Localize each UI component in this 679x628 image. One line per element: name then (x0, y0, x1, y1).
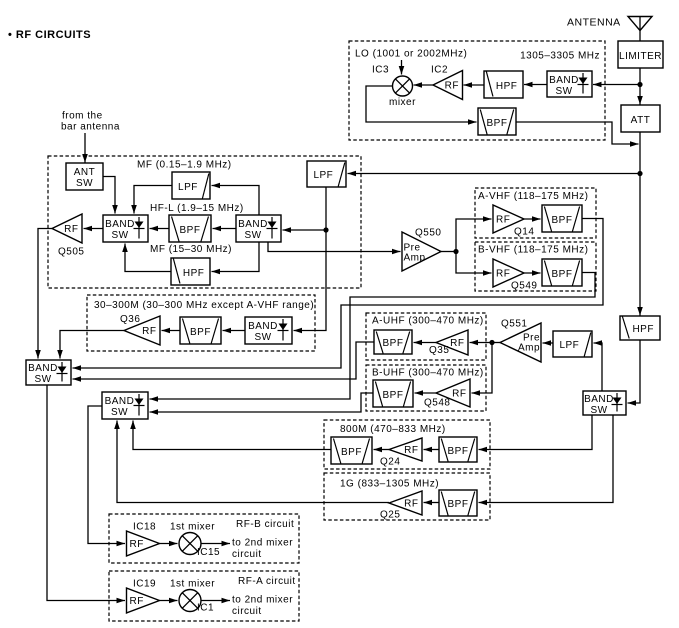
svg-text:HPF: HPF (632, 324, 654, 335)
svg-text:Q549: Q549 (511, 281, 537, 292)
band-pass filter BPF (A-UHF) (374, 330, 412, 354)
svg-text:IC18: IC18 (133, 522, 156, 533)
wire HPF out to band switch (125, 244, 171, 272)
wire to band switch (593, 84, 640, 86)
wire band switch to LPF (212, 186, 260, 216)
svg-text:ATT: ATT (631, 115, 651, 126)
svg-text:BPF: BPF (487, 118, 508, 129)
svg-text:Amp: Amp (518, 343, 540, 354)
svg-text:RF: RF (130, 539, 144, 550)
svg-text:to 2nd mixer: to 2nd mixer (232, 538, 293, 549)
wire Q551 to junction (492, 342, 500, 344)
dashed group 800M (324, 420, 490, 469)
svg-text:SW: SW (34, 374, 51, 385)
band-pass filter BPF (HF-L) (169, 215, 211, 242)
svg-text:Q548: Q548 (424, 398, 450, 409)
block LIMITER (618, 41, 663, 68)
wire B-VHF BPF out to BAND SW 2 (150, 273, 596, 400)
junction dot main line (637, 171, 642, 176)
svg-text:RF: RF (142, 326, 156, 337)
band-pass filter BPF (1G) (439, 490, 477, 516)
high-pass filter HPF (1305-3305) (484, 71, 523, 98)
svg-text:BPF: BPF (190, 327, 211, 338)
band-pass filter BPF (LO loop) (478, 108, 516, 135)
svg-text:LPF: LPF (559, 340, 579, 351)
svg-text:BAND: BAND (248, 321, 278, 332)
svg-text:HPF: HPF (496, 81, 518, 92)
svg-text:BAND: BAND (584, 394, 614, 405)
band-pass filter BPF (B-UHF) (373, 380, 413, 407)
svg-text:30–300M (30–300 MHz except A-V: 30–300M (30–300 MHz except A-VHF range) (94, 300, 314, 311)
wire IC2 to mixer (414, 84, 434, 86)
svg-text:MF (0.15–1.9 MHz): MF (0.15–1.9 MHz) (137, 160, 232, 171)
op-amp U IC2 RF amplifier (433, 71, 463, 100)
svg-text:to 2nd mixer: to 2nd mixer (232, 595, 293, 606)
low-pass filter LPF (UHF) (553, 331, 592, 357)
band-switch BAND SW (MF select in) (236, 215, 281, 242)
wire IC19 to mixer IC1 (160, 600, 178, 602)
svg-text:BAND: BAND (105, 396, 135, 407)
junction dot Q550 output (453, 249, 458, 254)
svg-text:Q14: Q14 (514, 227, 534, 238)
dashed group 1G (324, 473, 490, 520)
wire IC18 to mixer IC15 (160, 543, 178, 545)
wire band switch to BPF (213, 228, 237, 230)
wire LO to mixer with arrow (401, 60, 403, 75)
transistor IC18 RF amplifier (127, 531, 160, 556)
wire mixer to BPF (366, 86, 477, 122)
svg-text:LPF: LPF (313, 170, 333, 181)
svg-text:IC15: IC15 (197, 547, 220, 558)
wire 800M out to BAND SW B bottom (133, 421, 331, 450)
svg-text:IC3: IC3 (372, 65, 389, 76)
svg-text:RF-B circuit: RF-B circuit (236, 519, 294, 530)
wire Q548 to B-UHF BPF (415, 392, 437, 394)
svg-text:800M (470–833 MHz): 800M (470–833 MHz) (340, 424, 446, 435)
band-switch BAND SW (output A) (26, 360, 71, 385)
wire BAND SW to 800M BPF (479, 415, 593, 450)
band-pass filter BPF (B-VHF) (542, 259, 582, 286)
svg-text:BPF: BPF (341, 447, 362, 458)
band-switch BAND SW (UHF select) (583, 391, 626, 415)
wire Q35 to A-UHF BPF (414, 342, 437, 344)
low-pass filter LPF (top feed) (307, 161, 346, 187)
svg-text:RF: RF (496, 269, 510, 280)
svg-text:LIMITER: LIMITER (619, 51, 662, 62)
svg-text:Q35: Q35 (429, 345, 449, 356)
wire bar antenna to ANT SW (84, 133, 86, 163)
svg-text:IC19: IC19 (133, 579, 156, 590)
band-pass filter BPF (A-VHF) (542, 205, 582, 232)
wire mixer IC15 to 2nd mixer (201, 543, 230, 545)
dashed group A-VHF (475, 188, 596, 238)
svg-text:BPF: BPF (448, 446, 469, 457)
band-pass filter BPF (800M in) (439, 437, 477, 462)
wire HPF to IC2 (464, 84, 485, 86)
svg-text:• RF CIRCUITS: • RF CIRCUITS (8, 29, 91, 41)
svg-text:RF-A circuit: RF-A circuit (238, 576, 296, 587)
band-switch BAND SW (30-300M) (245, 317, 292, 344)
svg-text:circuit: circuit (232, 549, 262, 560)
wire LPF to Q551 (543, 342, 554, 344)
svg-text:mixer: mixer (389, 97, 416, 108)
transistor Q24 RF amplifier (389, 438, 422, 461)
dashed group RF-A circuit (109, 571, 299, 621)
transistor Q505 RF amplifier (52, 214, 82, 243)
wire HPF to BAND SW right (628, 340, 641, 403)
svg-text:BPF: BPF (552, 215, 573, 226)
wire A-UHF BPF out to BAND SW A (73, 342, 375, 379)
svg-text:RF: RF (452, 389, 466, 400)
wire MF band switch to Q550 (268, 242, 401, 252)
svg-text:SW: SW (244, 230, 261, 241)
svg-text:LO (1001 or 2002MHz): LO (1001 or 2002MHz) (355, 49, 467, 60)
svg-text:SW: SW (254, 332, 271, 343)
band-switch BAND SW (MF select out) (103, 215, 148, 242)
band-switch BAND SW (output B) (102, 392, 148, 419)
wire mixer IC1 to 2nd mixer (201, 600, 230, 602)
dashed group LO section (349, 41, 605, 140)
svg-text:RF: RF (450, 338, 464, 349)
svg-text:BPF: BPF (383, 390, 404, 401)
dashed group 30-300M (87, 295, 315, 351)
low-pass filter LPF (MF low) (172, 172, 210, 199)
svg-text:Amp: Amp (404, 253, 426, 264)
svg-text:B-VHF (118–175 MHz): B-VHF (118–175 MHz) (478, 245, 588, 256)
svg-text:RF: RF (496, 215, 510, 226)
wire band switch to HPF (524, 84, 547, 86)
wire band switch to Q505 (84, 228, 104, 230)
svg-text:Q25: Q25 (380, 510, 400, 521)
dashed group RF-B circuit (109, 514, 299, 563)
wire band switch to BPF (223, 330, 246, 332)
mixer IC15 (179, 533, 201, 555)
high-pass filter HPF (MF high) (171, 258, 210, 285)
svg-text:A-VHF (118–175 MHz): A-VHF (118–175 MHz) (478, 191, 588, 202)
dashed group MF/HF section (48, 156, 361, 288)
svg-text:ANTENNA: ANTENNA (567, 17, 621, 29)
wire band switch to HPF (212, 242, 260, 272)
wire Q25 out to BAND SW B bottom (117, 421, 389, 503)
wire junction to Q549 (456, 252, 492, 274)
wire BAND SW A to IC19 (47, 385, 125, 601)
svg-text:BPF: BPF (448, 499, 469, 510)
band-pass filter BPF (800M out) (331, 437, 372, 464)
svg-text:HF-L (1.9–15 MHz): HF-L (1.9–15 MHz) (150, 203, 244, 214)
band-switch BAND SW (1305-3305) (547, 71, 592, 97)
block ANT SW (66, 163, 103, 190)
wire BPF out to band switch (150, 228, 170, 230)
svg-text:circuit: circuit (232, 606, 262, 617)
wire BPF to Q36 (162, 330, 181, 332)
wire LPF out to band switch (134, 186, 172, 214)
wire A-VHF BPF out to BAND SW lower-left (73, 219, 604, 369)
wire Q549 to BPF (524, 272, 541, 274)
wire Q14 to BPF (524, 218, 541, 220)
wire Q550 to junction (441, 251, 456, 253)
wire Q36 to BAND SW lower-left (60, 331, 124, 359)
svg-text:Q24: Q24 (380, 457, 400, 468)
svg-text:RF: RF (445, 81, 459, 92)
wire junction to MF band switch (283, 229, 327, 231)
transistor Q25 RF amplifier (389, 491, 422, 515)
svg-text:MF (15–30 MHz): MF (15–30 MHz) (150, 244, 232, 255)
wire Q505 to BAND SW lower-left (38, 229, 52, 359)
svg-text:RF: RF (404, 499, 418, 510)
junction dot Q551 output (489, 340, 494, 345)
svg-text:1305–3305 MHz: 1305–3305 MHz (520, 51, 600, 62)
svg-text:IC1: IC1 (197, 603, 214, 614)
svg-text:Q551: Q551 (501, 319, 527, 330)
svg-text:SW: SW (590, 405, 607, 416)
dashed group B-UHF (366, 365, 486, 411)
transistor Q548 RF amplifier (436, 379, 470, 407)
wire junction to Q548 (472, 343, 493, 394)
wire ANT SW to band switch (103, 177, 115, 214)
svg-text:LPF: LPF (178, 182, 198, 193)
wire LPF down to 30-300M band switch (294, 187, 327, 331)
svg-text:BPF: BPF (383, 338, 404, 349)
wire B-UHF BPF out to BAND SW B (150, 393, 374, 412)
svg-text:RF: RF (64, 224, 78, 235)
svg-text:BPF: BPF (180, 225, 201, 236)
wire junction to Q35 (470, 342, 493, 344)
transistor Q14 RF amplifier (493, 205, 524, 233)
transistor IC19 RF amplifier (127, 588, 160, 613)
wire BAND SW B to IC18 (88, 406, 125, 544)
svg-text:RF: RF (404, 445, 418, 456)
svg-text:SW: SW (76, 178, 93, 189)
svg-text:SW: SW (555, 86, 572, 97)
wire BAND SW to 1G BPF (479, 415, 614, 503)
transistor Q551 Pre Amp (500, 323, 541, 362)
svg-text:RF: RF (130, 596, 144, 607)
svg-text:Q36: Q36 (120, 314, 140, 325)
dashed group B-VHF (475, 242, 596, 291)
wire LIMITER to ATT with arrow (639, 68, 641, 105)
transistor Q36 RF amplifier (124, 316, 160, 345)
svg-text:1G (833–1305 MHz): 1G (833–1305 MHz) (340, 479, 439, 490)
transistor Q550 Pre Amp (402, 232, 441, 271)
svg-text:bar antenna: bar antenna (61, 122, 120, 133)
svg-text:1st mixer: 1st mixer (170, 522, 215, 533)
block ATT (621, 105, 660, 132)
svg-text:BAND: BAND (238, 219, 268, 230)
junction dot antenna line (637, 82, 642, 87)
high-pass filter HPF (main) (620, 316, 660, 340)
svg-text:BAND: BAND (105, 219, 135, 230)
dashed group A-UHF (366, 313, 486, 360)
svg-text:IC2: IC2 (431, 65, 448, 76)
junction dot LPF feed (323, 227, 328, 232)
svg-text:SW: SW (111, 407, 128, 418)
svg-text:1st mixer: 1st mixer (170, 579, 215, 590)
wire BAND SW up to LPF (594, 343, 603, 391)
svg-text:BPF: BPF (552, 269, 573, 280)
svg-text:ANT: ANT (74, 167, 96, 178)
wire Q24 to BPF out (374, 449, 390, 451)
wire BPF to Q24 (424, 449, 440, 451)
wire BPF to main line (516, 122, 639, 144)
svg-text:A-UHF (300–470 MHz): A-UHF (300–470 MHz) (372, 316, 484, 327)
svg-text:from the: from the (62, 111, 103, 122)
band-pass filter BPF (30-300M) (180, 317, 221, 344)
svg-text:BAND: BAND (28, 363, 58, 374)
wire ATT down to HPF (639, 132, 641, 316)
wire BPF to Q25 (424, 502, 440, 504)
svg-text:B-UHF (300–470 MHz): B-UHF (300–470 MHz) (372, 368, 484, 379)
transistor Q549 RF amplifier (493, 259, 524, 287)
wire main line to LPF top (348, 173, 641, 175)
svg-text:Q505: Q505 (58, 247, 84, 258)
antenna symbol (628, 17, 652, 31)
mixer IC1 (179, 590, 201, 612)
wire junction to Q14 (456, 219, 492, 252)
mixer IC3 (393, 76, 413, 96)
svg-text:BAND: BAND (549, 75, 579, 86)
svg-text:SW: SW (111, 230, 128, 241)
svg-text:HPF: HPF (183, 268, 205, 279)
svg-text:Q550: Q550 (415, 228, 441, 239)
transistor Q35 RF amplifier (436, 330, 468, 355)
